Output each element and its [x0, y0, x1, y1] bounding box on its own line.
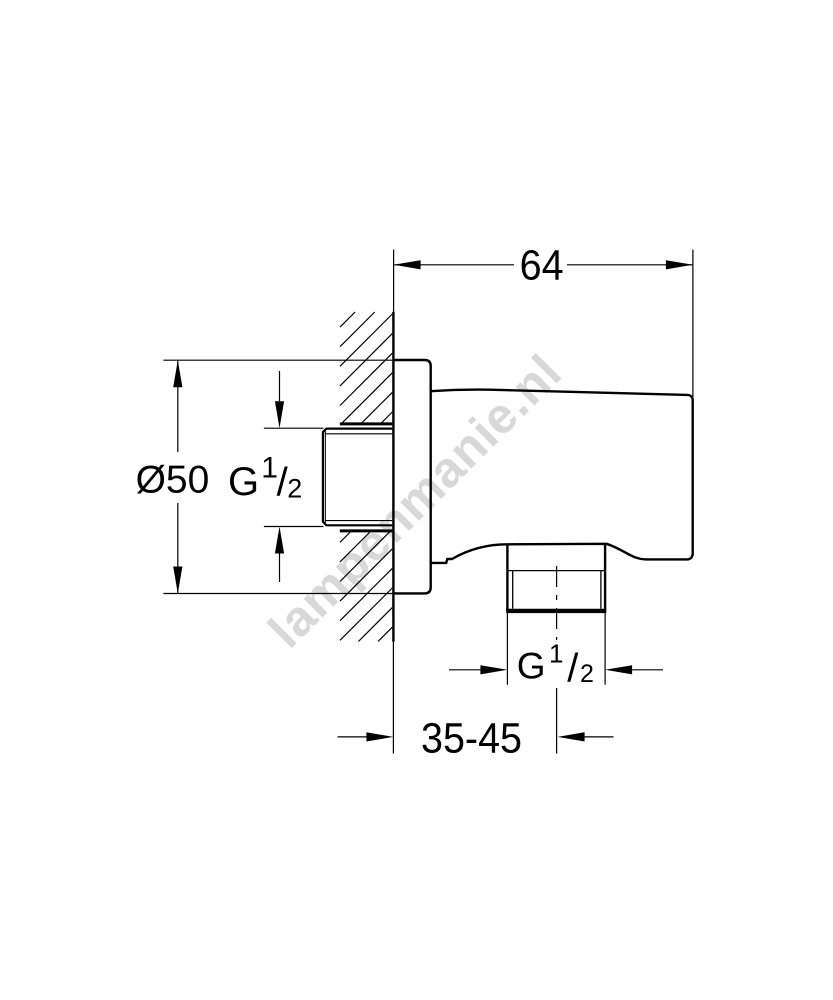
svg-text:G: G — [517, 646, 546, 687]
svg-text:Ø50: Ø50 — [136, 459, 210, 502]
svg-text:/: / — [567, 647, 579, 691]
wall opening top edge — [340, 422, 393, 425]
dimension 35-45 — [338, 642, 614, 754]
dimension 64 — [394, 250, 693, 398]
flange (escutcheon) — [393, 360, 430, 593]
outlet thread inner lines — [513, 571, 601, 609]
wall hatch lower — [340, 531, 392, 642]
dimension G 1/2 inlet — [264, 371, 324, 582]
svg-text:1: 1 — [549, 639, 563, 669]
inlet thread connector outline — [323, 429, 392, 526]
dimension Ø50 — [163, 360, 393, 593]
svg-text:35-45: 35-45 — [421, 714, 522, 762]
wall hatch upper — [340, 312, 392, 424]
svg-text:1: 1 — [261, 452, 278, 485]
wall opening bottom edge — [340, 529, 393, 532]
outlet thread shoulder — [507, 570, 605, 572]
svg-text:2: 2 — [580, 660, 594, 688]
svg-text:G: G — [228, 460, 259, 504]
svg-text:2: 2 — [287, 474, 302, 504]
wall face line — [392, 312, 394, 642]
outlet bottom edge — [506, 609, 606, 613]
dimension G 1/2 outlet — [449, 613, 663, 685]
outlet spout outer edges — [507, 544, 605, 611]
body outline — [431, 390, 693, 563]
inlet thread inner lines — [325, 431, 392, 524]
outlet center line — [556, 566, 558, 754]
svg-text:64: 64 — [520, 241, 564, 289]
